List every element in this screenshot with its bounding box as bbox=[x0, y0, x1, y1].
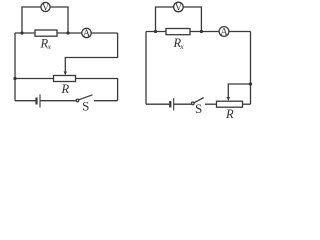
svg-text:x: x bbox=[179, 42, 184, 51]
svg-text:x: x bbox=[47, 42, 52, 51]
svg-text:A: A bbox=[220, 27, 228, 38]
svg-text:V: V bbox=[42, 2, 50, 13]
svg-text:R: R bbox=[61, 82, 70, 96]
svg-text:S: S bbox=[82, 98, 89, 113]
svg-text:S: S bbox=[195, 101, 202, 116]
svg-text:R: R bbox=[225, 107, 234, 121]
svg-text:V: V bbox=[175, 2, 183, 13]
svg-text:A: A bbox=[83, 29, 91, 40]
